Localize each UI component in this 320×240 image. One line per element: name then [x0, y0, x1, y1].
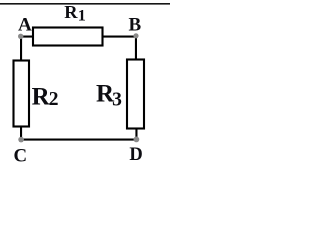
label R1 — [64, 2, 86, 25]
node D — [134, 137, 140, 143]
wire A to R1 — [20, 36, 33, 38]
wire R2 down to C — [20, 128, 22, 140]
node B — [133, 33, 138, 38]
svg-text:C: C — [14, 145, 28, 165]
svg-text:3: 3 — [112, 89, 122, 110]
wire R3 down to D — [135, 130, 137, 140]
svg-text:D: D — [129, 145, 142, 165]
top border line — [0, 3, 170, 5]
svg-text:R: R — [64, 2, 78, 22]
node A — [18, 34, 23, 39]
svg-text:A: A — [18, 14, 32, 35]
resistor R1 — [33, 28, 103, 46]
bottom wire C to D — [21, 139, 137, 141]
resistor R3 — [127, 60, 144, 129]
wire B down to R3 — [135, 36, 137, 60]
resistor R2 — [14, 61, 30, 127]
label R2 — [32, 84, 59, 111]
wire R1 to B — [103, 36, 137, 38]
svg-text:2: 2 — [49, 89, 59, 110]
svg-text:R: R — [32, 84, 51, 111]
label R3 — [96, 81, 122, 111]
wire A down to R2 — [20, 36, 22, 61]
node C — [18, 137, 24, 143]
svg-text:1: 1 — [78, 7, 86, 25]
svg-text:B: B — [129, 14, 142, 35]
